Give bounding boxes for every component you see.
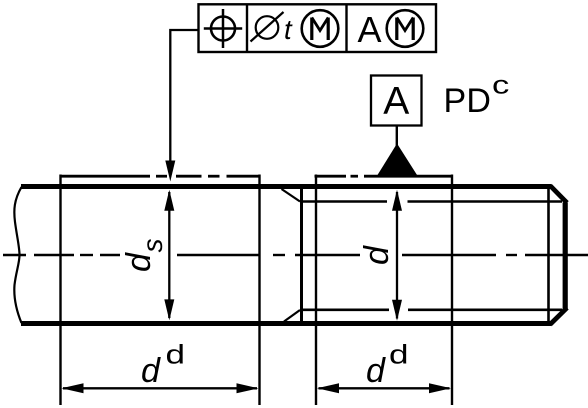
datum A square box — [371, 76, 422, 126]
chamfer diagonal bottom — [550, 308, 567, 325]
svg-text:A: A — [358, 9, 382, 50]
break line (wavy) — [14, 187, 21, 323]
svg-text:d: d — [120, 252, 158, 272]
chamfer diagonal top — [550, 186, 567, 203]
leader line from frame — [170, 30, 198, 163]
shaft bottom outline — [21, 321, 551, 326]
svg-text:d: d — [358, 245, 396, 265]
shaft top outline — [21, 184, 551, 189]
thread end vertical line — [300, 187, 303, 323]
svg-text:d: d — [366, 352, 386, 390]
datum feature triangle (filled) — [377, 144, 418, 176]
diameter symbol — [251, 12, 284, 42]
svg-text:d: d — [166, 339, 186, 369]
dimension line d-d right — [319, 387, 450, 389]
pitch diameter chain line left — [61, 175, 261, 178]
centre line — [3, 254, 588, 256]
thread minor diameter line bottom — [300, 308, 562, 311]
dimension line d-d left — [63, 387, 257, 389]
label d (rotated) — [358, 245, 396, 265]
feature control frame outer box — [199, 4, 437, 52]
svg-text:A: A — [383, 80, 409, 123]
chamfer start vertical line — [547, 187, 550, 323]
thread minor diameter line top — [300, 200, 562, 203]
extension line 1 (left d-d left) — [59, 175, 61, 406]
svg-text:d: d — [389, 339, 409, 369]
dimension d_s arrow up — [164, 190, 174, 211]
d-d left arrow right — [237, 383, 259, 393]
label d_s (rotated) — [120, 239, 168, 273]
dimension d_s arrow down — [164, 299, 174, 320]
extension line 3 (right d-d left) — [315, 175, 317, 406]
dimension d line — [396, 192, 398, 319]
dimension d_s line — [168, 192, 170, 318]
svg-text:PD: PD — [444, 82, 492, 120]
position tolerance symbol — [204, 9, 242, 48]
extension line 2 (left d-d right) — [258, 175, 260, 406]
MMC modifier circle 2 — [387, 10, 424, 47]
d-d left arrow left — [62, 383, 84, 393]
leader arrowhead — [165, 161, 175, 182]
svg-text:c: c — [492, 71, 509, 100]
extension line 4 (right d-d right) — [451, 175, 453, 406]
thread runout diagonal bottom — [284, 310, 300, 322]
pitch diameter chain line right — [315, 175, 453, 178]
svg-text:d: d — [141, 352, 161, 390]
dimension d arrow down — [392, 300, 402, 321]
MMC modifier circle 1 — [302, 10, 339, 47]
svg-text:s: s — [137, 239, 168, 253]
note superscript c — [492, 71, 509, 100]
d-d right arrow right — [429, 383, 451, 393]
dimension d arrow up — [392, 190, 402, 211]
d-d right arrow left — [317, 383, 339, 393]
right end face vertical — [563, 203, 568, 310]
thread runout diagonal top — [282, 189, 301, 202]
datum stem — [396, 126, 398, 147]
